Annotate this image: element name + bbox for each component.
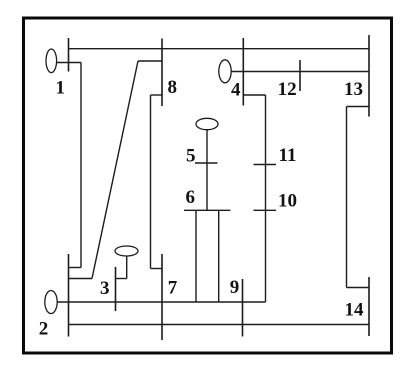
svg-text:3: 3	[100, 278, 110, 299]
svg-text:12: 12	[278, 79, 297, 100]
svg-text:1: 1	[55, 78, 65, 99]
svg-text:6: 6	[185, 187, 195, 208]
svg-text:2: 2	[39, 319, 49, 340]
svg-text:9: 9	[230, 277, 240, 298]
svg-text:5: 5	[186, 146, 196, 167]
svg-text:11: 11	[279, 145, 297, 166]
svg-text:8: 8	[167, 77, 177, 98]
svg-text:13: 13	[344, 79, 363, 100]
svg-text:4: 4	[231, 80, 241, 101]
svg-text:7: 7	[168, 278, 178, 299]
svg-text:10: 10	[278, 191, 297, 212]
svg-text:14: 14	[345, 300, 365, 321]
